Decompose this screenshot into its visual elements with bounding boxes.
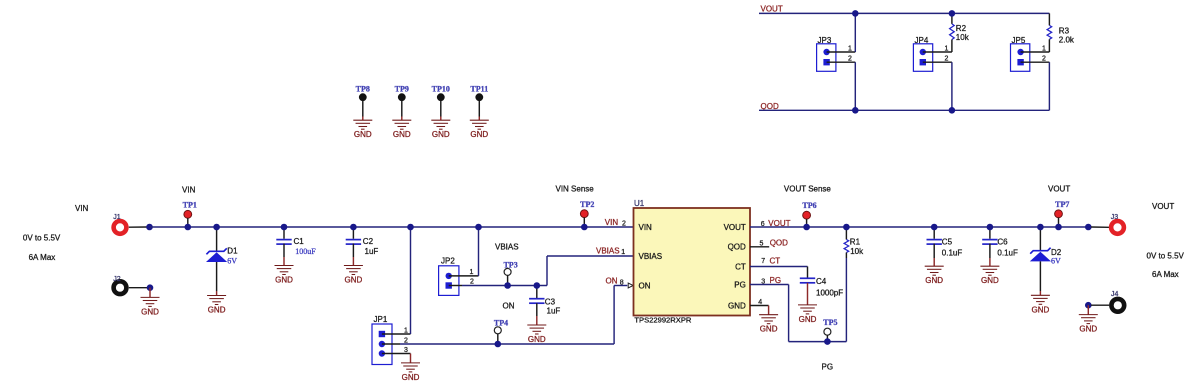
svg-text:VBIAS: VBIAS [596,247,620,256]
jumper JP4 [913,36,932,71]
node junction C2 [350,224,357,231]
svg-text:0V to 5.5V: 0V to 5.5V [23,234,61,243]
svg-text:1: 1 [848,45,852,52]
svg-text:GND: GND [760,325,778,334]
wire VOUT rail [750,226,1088,228]
svg-text:3: 3 [404,347,408,354]
svg-text:C3: C3 [545,298,556,307]
svg-text:JP1: JP1 [374,315,388,324]
svg-text:QOD: QOD [761,102,779,111]
svg-text:GND: GND [393,130,411,139]
svg-text:2: 2 [622,221,626,228]
net label VOUT (top) [761,5,783,14]
wire PG down [788,285,790,342]
text VOUT annotation (right) [1152,202,1174,211]
svg-text:VIN: VIN [182,186,196,195]
node J2 wire end [147,284,154,291]
pin name GND [728,302,746,311]
test point TP6 [802,201,816,227]
node junction D1 [213,224,220,231]
wire VBIAS row [462,285,547,287]
node junction D2 [1037,224,1044,231]
node junction VOUT/JP3 [852,10,859,17]
svg-text:ON: ON [503,302,515,311]
wire R1 to PG row [845,258,847,342]
resistor R1 [844,227,864,258]
wire QOD bottom rail [759,109,1049,111]
wire J4 stub [1091,304,1109,306]
svg-text:GND: GND [208,306,226,315]
wire J3 stub [1091,226,1109,228]
svg-text:2: 2 [470,278,474,285]
net label 3 PG [761,276,781,286]
text PG annotation [822,363,834,372]
ground under C6 [980,266,999,285]
svg-text:CT: CT [770,256,781,265]
wire J1 stub [129,226,147,228]
svg-text:1: 1 [1042,45,1046,52]
wire JP4 pin2 to QOD [951,62,953,110]
svg-text:VIN: VIN [75,204,89,213]
text ON annotation [503,302,515,311]
ground under JP1 pin3 [401,354,420,382]
svg-text:R2: R2 [956,24,967,33]
node junction QOD/JP3 [852,107,859,114]
svg-text:TPS22992RXPR: TPS22992RXPR [634,316,691,325]
svg-text:VOUT: VOUT [1048,185,1070,194]
wire JP3 pin1 stub [827,45,856,52]
svg-text:ON: ON [606,277,618,286]
pin name QOD [728,243,746,252]
svg-text:C4: C4 [816,277,827,286]
node junction JP2/VIN [475,224,482,231]
wire JP1 pin3 stub [382,347,411,354]
svg-text:1uF: 1uF [547,307,561,316]
svg-text:GND: GND [799,315,817,324]
wire JP3 pin1 to VOUT [854,13,856,52]
test point TP9 [395,84,409,120]
text 0V to 5.5V (right) [1147,252,1185,261]
svg-text:D1: D1 [227,247,238,256]
wire PG pin stub [750,284,789,286]
ground under J2 [141,288,160,317]
node junction C3 [534,282,541,289]
svg-text:R3: R3 [1059,27,1070,36]
wire VIN rail [150,226,634,228]
test point TP3 [503,260,517,285]
node junction TP5 [824,338,831,345]
svg-text:J4: J4 [1111,291,1119,298]
connector J3 [1111,214,1124,234]
svg-text:GND: GND [925,276,943,285]
node junction J3 [1085,224,1092,231]
wire ON to U1 [614,285,627,287]
svg-text:GND: GND [275,276,293,285]
svg-text:R1: R1 [850,238,861,247]
svg-text:GND: GND [528,335,546,344]
svg-text:VBIAS: VBIAS [639,252,663,261]
svg-text:C2: C2 [363,237,374,246]
svg-text:U1: U1 [634,199,645,208]
svg-text:1000pF: 1000pF [816,289,843,298]
wire JP5 pin2 stub [1021,56,1050,63]
svg-text:J1: J1 [113,214,121,221]
capacitor C1 [276,227,316,266]
text VBIAS annotation [495,243,519,252]
pin name VOUT [724,223,746,232]
svg-text:GND: GND [1032,305,1050,314]
connector J1 [113,214,126,234]
wire CT pin stub [750,266,808,268]
text 0V to 5.5V (left) [23,234,61,243]
test point TP4 [494,319,508,345]
ground under TP8 [353,120,372,139]
svg-text:JP5: JP5 [1012,36,1026,45]
wire QOD pin stub [750,246,769,248]
svg-text:PG: PG [734,281,746,290]
svg-text:QOD: QOD [770,239,788,248]
diode D1 (zener 6V) [206,227,238,296]
net label VIN 2 [605,218,626,228]
wire JP1 pin2 stub [382,338,408,345]
wire JP1 pin1 to VIN rail [410,227,412,334]
capacitor C2 [346,227,379,266]
node junction JP1/VIN [407,224,414,231]
wire JP5 pin2 to QOD [1048,62,1050,110]
ground under C4 [798,305,817,324]
svg-text:2.0k: 2.0k [1059,36,1075,45]
jumper JP2 [439,257,459,296]
diode D2 (zener 6V) [1030,227,1062,295]
node junction TP7 [1055,224,1062,231]
net label VBIAS1 [596,247,625,257]
ground under U1 GND pin [759,306,778,334]
pin name VBIAS [639,252,663,261]
svg-text:TP1: TP1 [183,201,197,210]
wire JP5 pin1 stub [1021,45,1050,52]
svg-text:GND: GND [728,302,746,311]
capacitor C6 [982,227,1018,266]
svg-text:7: 7 [761,258,765,265]
ground under J4 [1079,305,1098,333]
svg-text:C5: C5 [942,238,953,247]
test point TP1 [183,201,197,228]
svg-text:1: 1 [404,328,408,335]
svg-text:TP6: TP6 [802,201,816,210]
pin name ON [639,282,651,291]
node junction TP3 [504,282,511,289]
svg-text:VBIAS: VBIAS [495,243,519,252]
capacitor C4 [800,267,843,305]
wire PG row [789,341,847,343]
wire ON up [613,286,615,345]
svg-text:1: 1 [621,249,625,256]
net label ON 8 [606,277,624,287]
resistor R3 [1047,13,1075,52]
ground under D2 [1031,295,1050,314]
node junction TP6 [803,224,810,231]
svg-text:5: 5 [760,240,764,247]
node J4 wire end [1085,302,1092,309]
svg-text:0.1uF: 0.1uF [942,248,963,257]
svg-text:1: 1 [945,45,949,52]
wire JP4 pin1 stub [923,45,952,52]
node junction J1 [146,224,153,231]
text TPS22992RXPR [634,316,691,325]
resistor R2 [950,13,970,52]
net label 5 QOD [760,239,789,248]
ground under TP10 [431,120,450,139]
net label QOD (top) [761,102,779,111]
power label VIN (at TP1) [182,186,196,195]
wire JP3 pin2 stub [827,56,856,63]
svg-text:6: 6 [761,221,765,228]
svg-text:JP4: JP4 [915,36,929,45]
text 6A Max (right) [1152,270,1179,279]
svg-text:VIN Sense: VIN Sense [556,184,595,193]
svg-text:6V: 6V [227,257,237,266]
text VIN input annotation [75,204,89,213]
svg-text:2: 2 [848,56,852,63]
svg-text:TP3: TP3 [503,260,517,269]
wire JP3 pin2 to QOD [854,62,856,110]
svg-text:TP11: TP11 [470,84,488,93]
ground under TP11 [470,120,489,139]
node junction VOUT/R2 [949,10,956,17]
svg-text:2: 2 [945,56,949,63]
node junction TP2 [581,224,588,231]
svg-text:8: 8 [620,279,624,286]
wire ON row [400,343,614,345]
svg-text:10k: 10k [850,247,864,256]
svg-text:GND: GND [345,276,363,285]
svg-text:PG: PG [770,276,782,285]
svg-text:2: 2 [1042,56,1046,63]
test point TP7 [1055,200,1070,227]
svg-text:C6: C6 [997,238,1008,247]
capacitor C5 [927,227,963,266]
node junction QOD/JP4 [949,107,956,114]
node junction C5 [931,224,938,231]
svg-text:0.1uF: 0.1uF [997,248,1018,257]
pin name VIN [639,223,653,232]
ground under C5 [925,266,944,285]
connector J2 [113,276,126,294]
wire VOUT top rail [759,12,1049,14]
node junction R1/VOUT [843,224,850,231]
svg-text:6A Max: 6A Max [1152,270,1179,279]
test point TP2 [580,200,594,227]
svg-text:100uF: 100uF [295,247,316,256]
svg-text:6A Max: 6A Max [29,253,56,262]
text 6A Max (left) [29,253,56,262]
svg-text:TP2: TP2 [580,200,594,209]
text VIN Sense annotation [556,184,595,193]
svg-text:VOUT: VOUT [768,219,790,228]
test point TP10 [432,84,450,120]
svg-text:VOUT Sense: VOUT Sense [784,184,832,193]
capacitor C3 [529,286,560,326]
wire JP4 pin2 stub [923,56,952,63]
svg-text:GND: GND [981,276,999,285]
test point TP8 [356,84,370,120]
svg-text:VIN: VIN [605,218,619,227]
svg-text:TP7: TP7 [1055,200,1069,209]
svg-text:VOUT: VOUT [761,5,783,14]
svg-text:TP10: TP10 [432,84,450,93]
node junction TP4 [495,341,502,348]
svg-text:3: 3 [761,279,765,286]
svg-text:JP2: JP2 [441,257,455,266]
svg-text:VOUT: VOUT [724,223,746,232]
jumper JP1 [372,315,392,365]
svg-text:6V: 6V [1051,256,1061,265]
svg-text:TP9: TP9 [395,84,409,93]
svg-text:1uF: 1uF [365,247,379,256]
wire VBIAS up [546,256,548,286]
svg-text:QOD: QOD [728,243,746,252]
node junction C1 [281,224,288,231]
text VOUT annotation (top) [1048,185,1070,194]
svg-text:GND: GND [432,130,450,139]
IC U1 TPS22992RXPR body [634,199,751,316]
jumper JP3 [817,36,836,71]
svg-text:4: 4 [758,299,762,306]
svg-text:TP8: TP8 [356,84,370,93]
wire JP2 pin2 stub [449,278,474,285]
svg-text:GND: GND [1079,325,1097,334]
node junction TP1 [185,224,192,231]
ground under C1 [275,266,294,285]
svg-text:1: 1 [470,269,474,276]
test point TP11 [470,84,488,120]
svg-text:J2: J2 [113,276,121,283]
ground under TP9 [392,120,411,139]
wire J2 stub [129,287,147,289]
pin name PG [734,281,746,290]
node junction C6 [987,224,994,231]
svg-text:GND: GND [470,130,488,139]
ground under C2 [344,266,363,285]
wire VBIAS to U1 [547,255,634,257]
svg-text:JP3: JP3 [818,36,832,45]
svg-text:0V to 5.5V: 0V to 5.5V [1147,252,1185,261]
text VOUT Sense annotation [784,184,832,193]
jumper JP5 [1011,36,1030,71]
svg-text:J3: J3 [1111,214,1119,221]
wire JP2 pin1 to VIN rail [478,227,480,276]
svg-text:VOUT: VOUT [1152,202,1174,211]
wire JP2 pin1 stub [449,269,479,276]
ground under C3 [527,325,546,344]
svg-text:PG: PG [822,363,834,372]
test point TP5 [823,318,837,342]
svg-text:10k: 10k [956,33,970,42]
svg-text:ON: ON [639,282,651,291]
ground under D1 [207,296,226,315]
svg-text:CT: CT [735,262,746,271]
pin name CT [735,262,746,271]
net label 7 CT [761,256,780,265]
svg-text:GND: GND [141,307,159,316]
svg-text:C1: C1 [294,237,305,246]
connector J4 [1111,291,1124,312]
wire JP1 pin1 stub [382,328,411,335]
svg-text:GND: GND [402,373,420,382]
wire GND pin stub [750,299,769,306]
svg-text:TP5: TP5 [823,318,837,327]
net label 6 VOUT [761,219,791,228]
pin ON input triangle [628,283,633,288]
svg-text:GND: GND [354,130,372,139]
svg-text:VIN: VIN [639,223,653,232]
svg-text:TP4: TP4 [494,319,508,328]
